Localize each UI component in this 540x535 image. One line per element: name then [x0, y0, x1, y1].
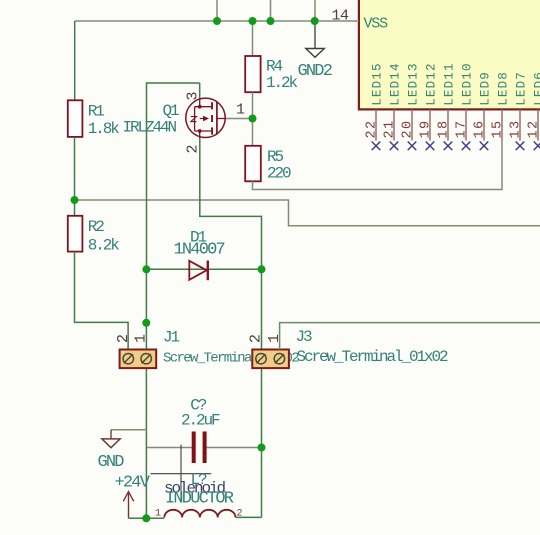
svg-text:14: 14 — [332, 8, 350, 25]
svg-text:LED13: LED13 — [407, 62, 421, 106]
svg-text:J1: J1 — [163, 329, 180, 347]
svg-text:20: 20 — [401, 119, 416, 138]
no-connect X pin 18 — [444, 142, 453, 151]
pin 15 LED8 — [501, 109, 503, 140]
svg-text:21: 21 — [383, 119, 398, 138]
no-connect X pin 17 — [462, 142, 471, 151]
svg-text:2.2uF: 2.2uF — [181, 412, 220, 430]
wire R2 bottom to J1 pin2 — [75, 252, 129, 350]
junction — [249, 17, 257, 25]
svg-text:18: 18 — [437, 119, 452, 138]
wire mid horizontal to right edge — [75, 200, 540, 226]
inductor L? solenoid — [155, 471, 243, 520]
svg-text:R2: R2 — [88, 218, 105, 236]
svg-text:VSS: VSS — [364, 16, 389, 33]
svg-text:INDUCTOR: INDUCTOR — [165, 490, 234, 509]
resistor R5 — [245, 146, 291, 183]
junction — [311, 17, 319, 25]
IC bottom pins, numbers, names, no-connects — [365, 62, 540, 150]
wire R5 bottom to IC pin15 — [253, 141, 503, 190]
wire Q1 gate to node — [225, 118, 253, 120]
svg-text:12: 12 — [527, 119, 540, 138]
svg-text:LED15: LED15 — [371, 62, 385, 106]
svg-text:R1: R1 — [88, 103, 105, 121]
svg-text:1: 1 — [155, 509, 161, 520]
wire stub up B — [270, 0, 272, 21]
connector J3 — [247, 328, 448, 368]
no-connect X pin 20 — [408, 142, 417, 151]
svg-text:Q1: Q1 — [163, 102, 180, 120]
wire Q1 drain pin3 — [199, 83, 201, 98]
pin 13 LED7 — [519, 109, 521, 140]
svg-text:1.8k: 1.8k — [88, 120, 120, 138]
crosshair cursor — [151, 445, 212, 502]
wire to R4 top — [252, 21, 254, 56]
wire stub up C — [314, 0, 316, 21]
resistor R2 — [68, 216, 120, 255]
junction J1 pin1 — [142, 319, 150, 327]
pin 18 LED11 — [447, 109, 449, 140]
svg-text:22: 22 — [365, 119, 380, 138]
svg-text:R4: R4 — [266, 58, 283, 76]
pin 20 LED13 — [411, 109, 413, 140]
junction C2 right — [258, 444, 266, 452]
svg-text:LED7: LED7 — [515, 71, 529, 106]
svg-text:IRLZ44N: IRLZ44N — [123, 119, 177, 137]
pin 21 LED14 — [393, 109, 395, 140]
wire Q1 source down to J3 column — [200, 138, 262, 269]
pin 17 LED10 — [465, 109, 467, 140]
svg-text:220: 220 — [267, 165, 291, 183]
svg-text:13: 13 — [509, 119, 524, 138]
no-connect X pin 16 — [480, 142, 489, 151]
wire D1 cathode column through J3 down to inductor — [261, 269, 263, 517]
svg-text:GND2: GND2 — [298, 62, 332, 81]
svg-text:LED6: LED6 — [533, 71, 540, 106]
svg-text:LED14: LED14 — [389, 62, 403, 106]
wire R4 bottom to R5 top (gate node) — [252, 92, 254, 146]
no-connect X pin 21 — [390, 142, 399, 151]
wire inductor pin2 to C2 column — [236, 516, 262, 518]
no-connect X pin 12 — [534, 142, 540, 151]
svg-text:LED9: LED9 — [479, 71, 493, 106]
svg-text:2: 2 — [247, 335, 264, 343]
pin 22 LED15 — [375, 109, 377, 140]
no-connect X pin 22 — [372, 142, 381, 151]
svg-text:R5: R5 — [267, 148, 284, 166]
junction D1 cathode — [258, 265, 266, 273]
junction gate node — [249, 115, 257, 123]
wire R1 bottom to R2 top — [74, 137, 76, 216]
ground GND2 — [298, 21, 332, 81]
resistor R1 — [68, 21, 120, 138]
svg-text:15: 15 — [491, 119, 506, 138]
wire J3 pin1 to right edge — [280, 323, 540, 350]
capacitor C2 — [147, 397, 262, 464]
svg-text:J3: J3 — [296, 328, 313, 346]
svg-text:1N4007: 1N4007 — [174, 241, 225, 260]
svg-text:LED8: LED8 — [497, 71, 511, 106]
wire GND branch — [111, 429, 147, 431]
svg-text:8.2k: 8.2k — [88, 237, 120, 255]
no-connect X pin 13 — [516, 142, 525, 151]
svg-text:Screw_Terminal_01x02: Screw_Terminal_01x02 — [297, 348, 449, 366]
diode D1 1N4007 — [146, 229, 261, 281]
wire +24V node to inductor pin1 — [129, 517, 165, 519]
connector J1 — [115, 329, 299, 369]
svg-text:16: 16 — [473, 119, 488, 138]
svg-text:17: 17 — [455, 119, 470, 138]
svg-text:LED12: LED12 — [425, 62, 439, 106]
svg-text:LED11: LED11 — [443, 62, 457, 106]
svg-text:1.2k: 1.2k — [266, 74, 298, 92]
power +24V — [115, 474, 151, 519]
svg-text:19: 19 — [419, 119, 434, 138]
ground GND — [98, 430, 125, 472]
no-connect X pin 19 — [426, 142, 435, 151]
pin 16 LED9 — [483, 109, 485, 140]
svg-text:+24V: +24V — [115, 474, 151, 493]
junction D1 anode — [142, 265, 150, 273]
pin 19 LED12 — [429, 109, 431, 140]
junction +24V — [142, 514, 150, 522]
transistor Q1 IRLZ44N — [123, 92, 246, 154]
resistor R4 — [245, 56, 297, 92]
junction — [213, 17, 221, 25]
wire D1 anode column through J1 down to +24V node — [145, 269, 147, 518]
wire stub up A — [216, 0, 218, 21]
svg-text:GND: GND — [98, 453, 125, 472]
junction — [71, 196, 79, 204]
wire gate loop: Q1 drain up-left to long vertical — [147, 83, 200, 269]
IC U? body (top right, partially off-canvas) — [359, 0, 540, 109]
svg-text:LED10: LED10 — [461, 62, 475, 106]
svg-text:2: 2 — [115, 335, 132, 343]
pin 12 LED6 — [537, 109, 539, 140]
junction — [267, 17, 275, 25]
wire VSS net top horizontal — [75, 20, 359, 22]
